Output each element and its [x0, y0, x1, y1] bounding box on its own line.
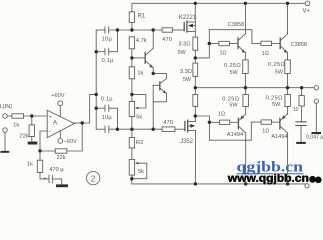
capacitor 470u electrolytic [48, 175, 50, 183]
node junction 3.3ohm lower / J352 drain [194, 114, 197, 117]
svg-text:A1494: A1494 [227, 132, 243, 138]
wire A1494-2 collector [287, 133, 289, 184]
capacitor 0.1u top [104, 49, 106, 55]
resistor 470 gate K2221 [162, 28, 172, 32]
wire A1494-2 emitter [287, 107, 289, 115]
wire 0.1u mid right jog [109, 108, 118, 129]
wire Q1 collector [152, 30, 154, 48]
wire input-cap net y=30 [96, 29, 105, 31]
wire C3858-2 emitter [287, 53, 289, 60]
transistor C3858 upper1 [237, 38, 239, 49]
resistor 0.25 5W upper2 [285, 60, 291, 74]
terminal input ground [3, 128, 8, 133]
wire A1494-1 collector [245, 133, 247, 184]
svg-text:10µ: 10µ [102, 115, 113, 121]
ground speaker [312, 132, 322, 134]
svg-text:+: + [44, 176, 47, 182]
svg-text:0.1µ: 0.1µ [101, 97, 113, 103]
wire 22k to ground [31, 137, 33, 142]
node junction R1 / 4.7k [130, 28, 133, 31]
resistor 1 ohm lower2 [251, 121, 261, 123]
node circled 2 [87, 171, 100, 184]
svg-text:10: 10 [293, 107, 299, 113]
svg-text:www.qgjbb.cn: www.qgjbb.cn [227, 173, 309, 185]
svg-text:J352: J352 [180, 139, 194, 145]
node junction V+ rail / K2221 drain [194, 2, 197, 5]
svg-text:5W: 5W [275, 69, 284, 75]
capacitor 10u top [104, 27, 106, 33]
wire feedback down [81, 123, 83, 151]
wire +60V supply [59, 106, 61, 117]
resistor 4.7k [129, 37, 134, 49]
capacitor 0.1u mid [104, 105, 106, 111]
svg-text:+60V: +60V [51, 93, 64, 99]
node junction op-amp output [81, 121, 84, 124]
wire 3.3 lower to J352 [194, 107, 196, 117]
resistor R2 [131, 129, 133, 137]
wire bias rail [109, 128, 162, 130]
svg-text:10µ: 10µ [102, 37, 113, 43]
svg-text:0.1µ: 0.1µ [102, 58, 115, 64]
node junction bias rail / Q2 network [152, 128, 155, 131]
transistor Q1 driver [144, 52, 146, 63]
svg-text:+: + [49, 114, 52, 120]
wire 1k down to pot node [131, 79, 133, 102]
svg-text:22k: 22k [20, 134, 29, 140]
terminal +60V [58, 101, 63, 106]
svg-text:C3858: C3858 [290, 42, 306, 48]
wire bottom rail [132, 179, 305, 184]
wire 3.3 to output rail [194, 76, 196, 87]
node junction V- rail / J352 source [194, 182, 197, 185]
wire cap to node [109, 29, 132, 31]
wire C3858-2 collector [287, 3, 289, 34]
svg-text:5k: 5k [136, 115, 142, 121]
wire pot to bias rail [131, 117, 133, 130]
resistor 1k input [7, 115, 12, 117]
svg-text:1k: 1k [137, 71, 143, 77]
svg-text:V+: V+ [302, 9, 310, 15]
node junction feedback node [38, 149, 41, 152]
resistor 10 zobel [301, 88, 303, 96]
wire 470u to ground [52, 179, 61, 185]
resistor 3.3 5W lower [193, 95, 198, 107]
resistor 22k feedback [67, 150, 82, 152]
svg-text:−: − [48, 129, 51, 135]
capacitor 0.047u zobel [301, 106, 303, 122]
resistor 0.25 5W lower2 [285, 95, 291, 107]
svg-text:1Ω: 1Ω [262, 51, 269, 57]
wire 0.1u left [96, 51, 105, 53]
wire 1k to 470u [40, 172, 49, 179]
svg-text:−60V: −60V [64, 139, 77, 145]
node junction 1k / pot 5k upper [130, 93, 133, 96]
wire pot2 bottom [131, 175, 133, 179]
svg-text:0.047 µ: 0.047 µ [306, 134, 323, 140]
svg-text:5W: 5W [183, 77, 192, 83]
node junction V+ rail / C3858-2 collector [286, 2, 289, 5]
resistor 1k driver [129, 67, 134, 79]
wire -60V supply [59, 131, 61, 139]
svg-text:1Ω: 1Ω [219, 51, 226, 57]
mosfet J352 [184, 122, 186, 131]
resistor 1 ohm lower1 [209, 121, 219, 123]
resistor 0.25 5W lower1 [243, 95, 249, 107]
op-amp U1 [47, 110, 74, 137]
wire R1 to top node [131, 22, 133, 30]
svg-text:5k: 5k [138, 169, 144, 175]
node junction bias rail / caps [116, 128, 119, 131]
wire C3858-1 collector [244, 3, 246, 34]
wire lower source node branch [195, 116, 209, 140]
wire bottom bridge to right 1ohm [209, 122, 251, 140]
mosfet K2221 [183, 22, 185, 30]
node junction bias rail / pot column [130, 128, 133, 131]
node junction pot 5k lower wiper [130, 177, 133, 180]
svg-text:0.25Ω: 0.25Ω [224, 63, 241, 69]
terminal V- [305, 184, 309, 188]
capacitor 10u mid [104, 126, 106, 132]
svg-text:1k: 1k [13, 122, 19, 128]
resistor R1 [129, 12, 134, 23]
node junction V- rail / A1494-2 collector [286, 182, 289, 185]
svg-text:3.3Ω: 3.3Ω [180, 69, 192, 75]
terminal V+ [305, 1, 310, 6]
node junction 1 ohm branch lower [208, 121, 211, 124]
transistor A1494 lower1 [237, 118, 239, 129]
potentiometer 5k lower [131, 148, 133, 159]
wire Q2 emitter [153, 93, 166, 102]
potentiometer 5k upper [129, 102, 134, 117]
wire K2221 drain-source column [194, 3, 196, 37]
node junction 0.1u top left [95, 50, 98, 53]
transistor C3858 upper2 [279, 38, 281, 49]
watermark qgjbb.cn blue [237, 159, 304, 175]
terminal L[IN] [3, 114, 8, 119]
wire output rail [195, 87, 314, 89]
resistor 1 ohm driver2 [252, 42, 261, 44]
wire 1k to op-amp [24, 115, 48, 117]
node junction 0.1u mid left [95, 107, 98, 110]
wire Q1 base [132, 57, 145, 59]
wire output jog to cap column [82, 94, 96, 123]
svg-text:0.25Ω: 0.25Ω [266, 96, 283, 102]
wire op-amp output [74, 122, 82, 124]
svg-text:470: 470 [162, 37, 172, 43]
wire top bridge to right 1ohm [209, 30, 252, 44]
svg-text:5W: 5W [229, 103, 238, 109]
watermark www.qgjbb.cn black [226, 172, 321, 185]
wire Q1 emitter down [152, 68, 154, 74]
wire 10u mid left [96, 128, 105, 130]
resistor 470 gate J352 [162, 127, 175, 131]
ground zobel [296, 142, 306, 144]
wire left column x=96 [95, 30, 97, 129]
svg-text:R1: R1 [138, 14, 146, 20]
svg-text:5W: 5W [230, 70, 239, 76]
wire Q2 base to bias rail [153, 85, 160, 129]
svg-text:470: 470 [163, 120, 173, 126]
resistor 0.25 5W upper1 [243, 60, 249, 74]
svg-text:5W: 5W [178, 50, 187, 56]
svg-text:5W: 5W [272, 102, 281, 108]
svg-text:1Ω: 1Ω [262, 129, 269, 135]
ground 470u [56, 184, 68, 187]
svg-text:A1494: A1494 [271, 134, 287, 140]
node junction Q1 emitter / Q2 collector [152, 72, 155, 75]
node junction output rail / 0.25ohm-1 [244, 86, 247, 89]
node junction output rail / 3.3ohm [194, 86, 197, 89]
svg-text:0.25Ω: 0.25Ω [268, 62, 285, 68]
resistor 3.3 5W upper2 [193, 63, 198, 76]
node junction output rail / zobel [300, 86, 303, 89]
node junction input net / 0.1u jog [116, 28, 119, 31]
wire inverting input [40, 131, 47, 151]
node junction 1k / 22k / op-amp input [30, 114, 33, 117]
wire Q1 emitter to Q2 collector [153, 73, 166, 78]
svg-text:470 µ: 470 µ [49, 167, 64, 173]
node junction 1 ohm branch upper [208, 42, 211, 45]
svg-text:C3858: C3858 [228, 22, 244, 28]
svg-text:A: A [53, 119, 58, 126]
ground input [0, 151, 9, 153]
wire between 3.3 resistors [194, 50, 196, 63]
svg-text:1k: 1k [27, 162, 33, 168]
resistor 1 ohm driver1 [209, 43, 219, 45]
wire 0.25-1 to output rail [244, 74, 246, 88]
node junction 4.7k / 1k / Q1 base [130, 56, 133, 59]
wire A1494-1 emitter [245, 107, 247, 115]
resistor 1k feedback [39, 151, 41, 160]
transistor Q2 bias [159, 82, 161, 90]
svg-text:22k: 22k [56, 155, 65, 161]
node junction V- rail / A1494-1 collector [244, 182, 247, 185]
node junction output rail / 0.25ohm-2 [286, 86, 289, 89]
wire 0.25-2 to output rail [287, 74, 289, 88]
wire C3858-1 emitter [244, 53, 246, 60]
svg-text:3.3Ω: 3.3Ω [178, 42, 190, 48]
terminal -60V [58, 139, 63, 144]
svg-text:2: 2 [91, 174, 96, 184]
node junction 3.3ohm resistors / bridge [194, 56, 197, 59]
terminal speaker out [314, 86, 318, 90]
ground 22k [28, 142, 38, 145]
node junction Q1 collector / input net [152, 28, 155, 31]
wire 0.1u right jog [109, 30, 118, 52]
wire source node branch [195, 30, 209, 58]
resistor 3.3 5W upper1 [193, 37, 198, 50]
transistor A1494 lower2 [279, 118, 281, 129]
svg-text:4.7k: 4.7k [136, 38, 147, 44]
node junction V+ rail / C3858-1 collector [244, 2, 247, 5]
wire top V+ rail [132, 3, 307, 12]
svg-text:L[IN]: L[IN] [0, 104, 12, 110]
svg-text:1Ω: 1Ω [218, 111, 225, 117]
wire 4.7k to 1k [131, 49, 133, 67]
node junction output jog / left column [95, 93, 98, 96]
wire node to Q1 collector column [132, 29, 162, 31]
resistor 22k input [31, 116, 33, 125]
wire 0.1u mid left [96, 107, 105, 109]
svg-text:R2: R2 [136, 140, 143, 146]
wire 470 to J352 gate [175, 128, 184, 130]
svg-text:K2221: K2221 [179, 15, 197, 21]
wire J352 drain-source column [194, 116, 196, 122]
terminal speaker return [314, 99, 318, 103]
